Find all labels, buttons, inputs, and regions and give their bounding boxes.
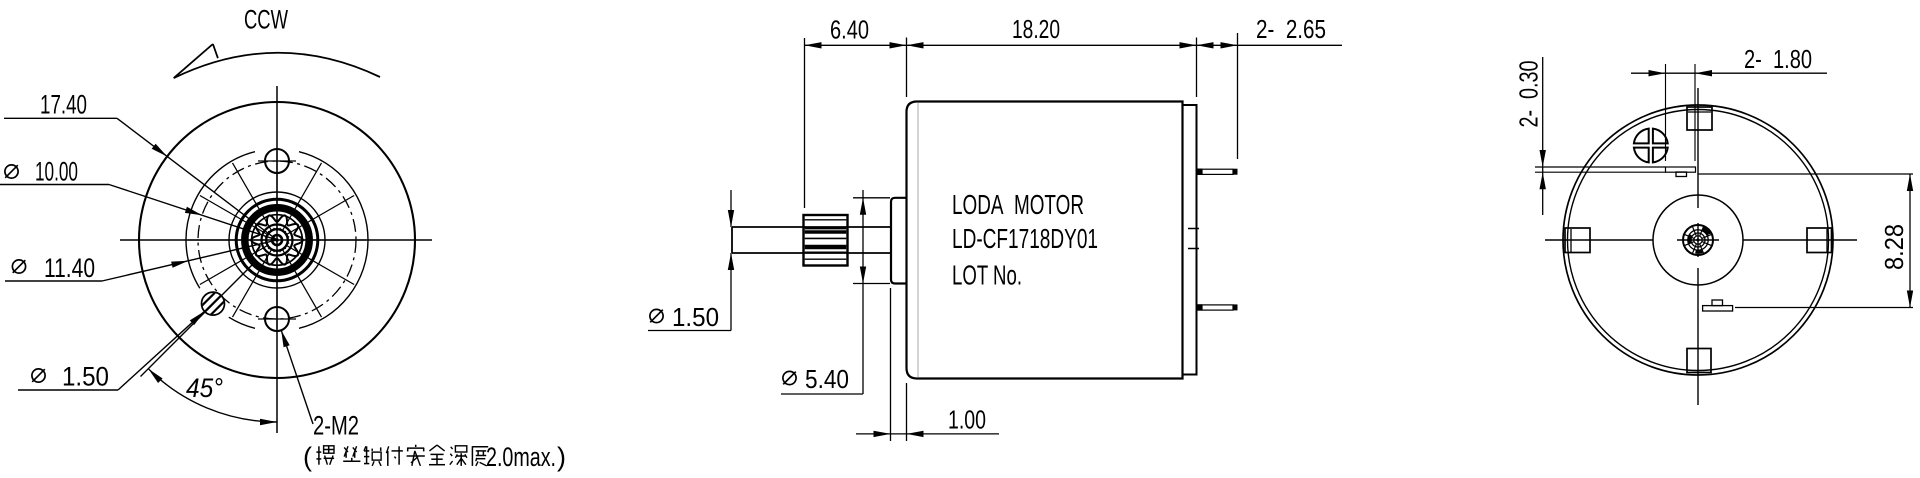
rear view: vent hole (quartered circle)	[1634, 129, 1668, 163]
svg-text:LOT No.: LOT No.	[952, 260, 1022, 291]
rear view: outer double circle	[1563, 105, 1833, 375]
front view: radial spokes	[188, 151, 366, 329]
side view: end cap notch marks	[1188, 229, 1199, 249]
rear view: upper terminal tab	[1666, 167, 1696, 177]
svg-text:LODA MOTOR: LODA MOTOR	[952, 189, 1084, 220]
front view: top screw hole	[258, 149, 296, 173]
dimension dia 5.40 (boss)	[781, 190, 890, 394]
svg-text:1.50: 1.50	[672, 302, 719, 332]
dimension 2-M2 label with leader	[281, 330, 359, 440]
rear view: top mounting tab	[1687, 107, 1712, 130]
svg-text:17.40: 17.40	[40, 90, 87, 120]
rear view: lower terminal tab	[1703, 300, 1733, 311]
front view: horizontal centerline	[120, 239, 432, 241]
side view: motor body can	[907, 102, 1183, 379]
front view: boss circle dia 11.40 (interrupted arcs)	[186, 152, 368, 329]
side view: terminal pin upper	[1197, 169, 1238, 176]
side view: can seam line	[917, 103, 919, 377]
svg-text:8.28: 8.28	[1879, 224, 1909, 270]
dimension 17.40 with leader	[4, 90, 277, 241]
svg-text:6.40: 6.40	[830, 15, 869, 45]
rear view: bearing boss circle	[1653, 195, 1743, 285]
dimension 18.20	[907, 14, 1197, 97]
front view: CCW label	[244, 5, 288, 35]
dimension 2-0.30 (rotated)	[1514, 57, 1666, 215]
dimension 45 deg arc	[148, 369, 277, 426]
45 deg text	[186, 373, 223, 403]
dimension 8.28 (rotated)	[1698, 174, 1913, 308]
front view: 45-deg radial line through small hole	[141, 262, 256, 377]
svg-text:45°: 45°	[186, 373, 223, 403]
rear view: left mounting tab	[1565, 228, 1590, 253]
svg-text:2-M2: 2-M2	[313, 411, 359, 441]
svg-text:LD-CF1718DY01: LD-CF1718DY01	[952, 223, 1098, 254]
side view: end cap	[1183, 105, 1197, 375]
side view: terminal pin lower	[1197, 304, 1238, 311]
svg-text:2- 2.65: 2- 2.65	[1256, 14, 1326, 44]
dimension dia 11.40 with leader	[5, 240, 277, 283]
note: screw locking depth (Chinese)	[303, 442, 566, 472]
front view: vertical centerline	[276, 86, 278, 433]
front view: bearing retainer rings	[229, 192, 325, 288]
rear view: vertical centerline	[1697, 88, 1699, 405]
front view: bolt circle dia 10.00 (dashed)	[198, 161, 356, 319]
dimension dia 1.50 with leader	[18, 311, 205, 391]
dimension dia 1.50 (shaft)	[648, 190, 734, 332]
side view: motor shaft	[732, 227, 891, 253]
svg-text:1.00: 1.00	[948, 405, 986, 435]
front view: CCW rotation arc with open arrowhead	[174, 44, 380, 78]
svg-text:2- 1.80: 2- 1.80	[1744, 44, 1812, 74]
side view: motor label text	[952, 189, 1098, 291]
rear view: bottom mounting tab	[1687, 349, 1711, 373]
dimension 1.00 (boss thickness)	[856, 288, 999, 441]
front view: hatched hole dia 1.50 at 45 deg	[190, 281, 236, 327]
dimension dia 10.00 with leader	[0, 157, 277, 241]
dimension 2-2.65	[1197, 14, 1327, 159]
svg-text:(: (	[303, 442, 312, 472]
svg-text:11.40: 11.40	[44, 253, 95, 283]
dimension 6.40	[805, 15, 1343, 209]
svg-text:1.50: 1.50	[62, 362, 109, 392]
rear view: shaft hub knurl	[1683, 225, 1713, 255]
svg-text:2.0max.: 2.0max.	[486, 442, 556, 472]
side view: knurled pinion gear	[804, 215, 848, 266]
svg-text:2- 0.30: 2- 0.30	[1514, 61, 1544, 128]
svg-text:): )	[557, 442, 566, 472]
rear view: horizontal centerline	[1545, 239, 1857, 241]
svg-text:CCW: CCW	[244, 5, 288, 35]
front view: shaft circles and hub	[262, 225, 293, 256]
front view: motor body outer circle (17.40)	[139, 102, 415, 378]
rear view: right mounting tab	[1807, 228, 1832, 253]
front view: commutator flower ring	[251, 215, 303, 264]
dimension 2-1.80	[1631, 44, 1827, 161]
svg-text:18.20: 18.20	[1012, 14, 1060, 44]
side view: bearing boss dia 5.40	[891, 198, 907, 284]
front view: bottom screw hole	[258, 307, 296, 331]
svg-text:10.00: 10.00	[35, 157, 78, 187]
svg-text:5.40: 5.40	[805, 364, 849, 394]
